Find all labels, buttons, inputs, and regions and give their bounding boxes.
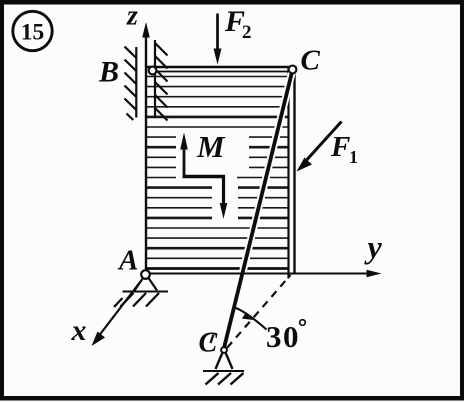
svg-text:F: F	[330, 131, 350, 163]
svg-text:z: z	[126, 1, 138, 32]
svg-text:30: 30	[266, 319, 300, 354]
svg-text:15: 15	[21, 20, 45, 46]
svg-text:M: M	[196, 129, 226, 164]
svg-text:1: 1	[349, 147, 358, 167]
svg-text:x: x	[71, 314, 87, 347]
svg-text:C: C	[199, 328, 218, 359]
svg-text:A: A	[117, 245, 138, 277]
svg-text:2: 2	[242, 22, 252, 43]
svg-text:B: B	[98, 56, 119, 89]
svg-text:C: C	[301, 45, 321, 77]
